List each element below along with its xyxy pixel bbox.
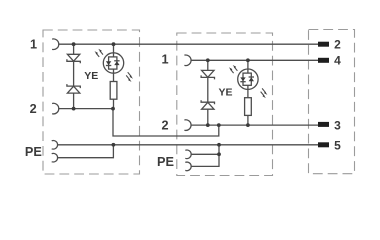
wire PE-a block2 [191, 153, 219, 155]
wire pin1 block1 to terminal 2 [58, 43, 318, 45]
resistor R2 block2 [245, 98, 252, 116]
socket contact pin 1 block2 [184, 55, 191, 66]
socket contact pin 1 block1 [52, 39, 59, 50]
socket contact PE-a block2 [185, 150, 191, 159]
node PE-a block2 [217, 152, 221, 156]
wire zener branch block2 [207, 60, 209, 125]
terminal 4 pad [318, 58, 329, 63]
node PE join block1 [112, 143, 116, 147]
zener diode V2 block1 [67, 84, 80, 93]
LED emission arrows upper-left block2 [229, 65, 238, 73]
wire zener branch block1 [73, 44, 75, 108]
node pin2 elbow join [217, 123, 221, 127]
LED inner diodes block2 [240, 69, 254, 98]
svg-text:1: 1 [30, 38, 37, 52]
LED lamp circle block2 [238, 69, 258, 89]
zener diode V1 block1 [67, 54, 80, 63]
svg-text:5: 5 [334, 138, 341, 152]
node PE join block2 [217, 143, 221, 147]
terminal 5 pad [318, 142, 329, 147]
wire PE-b block2 up to PE line [191, 145, 219, 167]
socket contact PE-b block2 [185, 162, 191, 171]
wire elbow pin2 block1 to pin2 row block2 [113, 109, 219, 136]
node pin1-zener block2 [206, 58, 210, 62]
wire pin2 block1 [58, 108, 113, 110]
zener diode V2 block2 [201, 100, 214, 109]
node pin2-LED block1 [111, 107, 115, 111]
svg-text:2: 2 [30, 102, 37, 116]
svg-text:YE: YE [218, 86, 232, 98]
node pin1-LED block1 [112, 42, 116, 46]
wire LED branch block1 [113, 44, 115, 53]
LED inner diodes block1 [106, 53, 120, 82]
connector block 2 dashed outline [177, 33, 273, 176]
svg-text:YE: YE [84, 70, 98, 82]
svg-text:4: 4 [334, 54, 341, 68]
wire resistor R1 to pin2 wire [113, 99, 115, 108]
svg-text:PE: PE [157, 155, 174, 169]
wire resistor R2 to pin2 row [247, 115, 249, 125]
svg-text:PE: PE [25, 145, 42, 159]
terminal 2 pad [318, 42, 329, 47]
node pin2-zener block2 [206, 123, 210, 127]
node pin2-LED block2 [246, 123, 250, 127]
svg-text:3: 3 [334, 119, 341, 133]
LED emission arrows lower-right block2 [261, 88, 268, 98]
socket contact PE-b block1 [52, 153, 58, 162]
LED emission arrows upper-left block1 [95, 49, 104, 57]
node pin2-zener block1 [72, 107, 76, 111]
svg-text:2: 2 [334, 38, 341, 52]
junction dots [72, 42, 250, 156]
socket contact pin 2 block1 [52, 103, 59, 114]
socket contact pin 2 block2 [184, 120, 191, 131]
zener diode V1 block2 [201, 70, 214, 79]
terminal 3 pad [318, 122, 329, 127]
connector block 1 dashed outline [43, 30, 140, 174]
node pin1-zener block1 [72, 42, 76, 46]
resistor R1 block1 [110, 82, 117, 100]
LED emission arrows lower-right block1 [126, 72, 133, 82]
wire pin2 block2 to terminal 3 [191, 124, 319, 126]
LED lamp circle block1 [103, 53, 123, 73]
socket contact PE-a block1 [52, 141, 58, 150]
wire pin1 block2 to terminal 4 [191, 59, 319, 61]
svg-text:2: 2 [161, 119, 168, 133]
plug region dashed outline [309, 30, 355, 174]
wire PE-b block1 up to PE line [57, 145, 113, 158]
node pin1-LED block2 [246, 58, 250, 62]
wire LED branch block2 [247, 60, 249, 69]
svg-text:1: 1 [161, 53, 168, 67]
wire PE block1 to terminal 5 [57, 144, 318, 146]
